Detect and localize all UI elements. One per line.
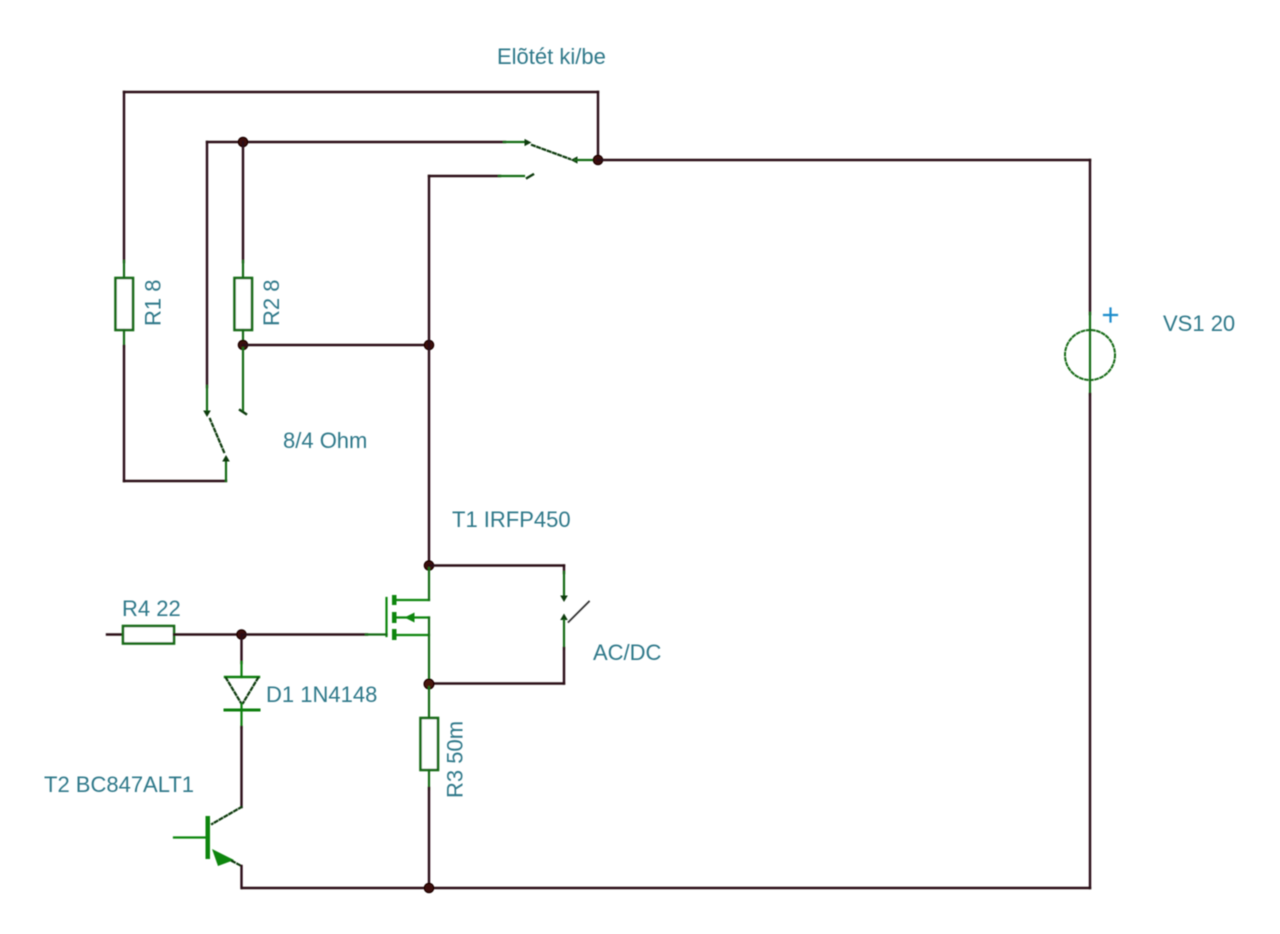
node junction T1 source / R3 top xyxy=(424,679,434,689)
wire vertical x=429 from lower throw to T1 drain junction xyxy=(428,176,430,565)
svg-text:R1 8: R1 8 xyxy=(141,280,166,326)
switch SW1 common green lead xyxy=(575,159,598,161)
wire green drop to SW2 open contact xyxy=(242,348,244,410)
switch SW3 top arrowhead down xyxy=(560,596,568,603)
diode D1 dashed triangle sides xyxy=(226,678,258,703)
T1 drain lead xyxy=(396,599,429,601)
wire R3 bottom lead xyxy=(428,770,430,789)
wire horizontal y=142 xyxy=(207,141,505,143)
wire R1 top lead xyxy=(123,92,125,262)
wire R4 right lead to junction xyxy=(174,633,241,635)
T1 channel bar bottom xyxy=(392,629,397,640)
T2 emitter dashes to corner xyxy=(232,861,242,866)
svg-text:AC/DC: AC/DC xyxy=(593,640,662,665)
resistor R3 xyxy=(421,718,439,770)
node junction at switch common xyxy=(593,155,602,164)
wire R4 left stub xyxy=(107,633,123,635)
wire vertical x=207 from y142 wire to switch contact xyxy=(206,142,208,387)
switch SW1 common arrowhead xyxy=(571,156,578,163)
transistor T1 MOSFET gate bar xyxy=(385,598,387,636)
switch SW3 bottom arrowhead up xyxy=(560,614,568,621)
switch SW2 pivot arrowhead xyxy=(222,455,230,462)
svg-text:R2 8: R2 8 xyxy=(259,280,284,326)
T2 emitter arrow xyxy=(212,849,234,866)
voltage source VS1 plus sign xyxy=(1104,309,1117,322)
resistor R4 xyxy=(123,626,174,644)
switch SW2 8/4 Ohm : pivot stub xyxy=(225,461,227,481)
diode D1 cathode bar xyxy=(225,709,259,712)
switch SW2 contact arrowhead on x=207 line xyxy=(203,411,211,418)
T1 source lead xyxy=(396,634,429,636)
wire top horizontal from R1 top to right corner xyxy=(124,91,598,93)
wire bottom-left horizontal xyxy=(124,480,226,482)
voltage source VS1 dashed circle xyxy=(1065,330,1115,380)
wire R2 top lead xyxy=(242,142,244,262)
T1 body lead with arrow xyxy=(396,616,429,618)
wire right rail upper xyxy=(1089,160,1091,314)
wire R2 bottom lead xyxy=(242,330,244,345)
T2 base bar xyxy=(206,816,211,859)
switch SW1 Elõtét ki/be : upper throw green lead xyxy=(504,141,526,143)
svg-text:8/4 Ohm: 8/4 Ohm xyxy=(283,428,367,453)
wire D1 top lead xyxy=(240,635,242,664)
node junction y=345 x=429 xyxy=(424,340,433,349)
node junction gate/diode xyxy=(237,630,246,639)
transistor T2 collector dashed diagonal xyxy=(212,807,242,824)
wire bottom rail xyxy=(242,887,1090,889)
svg-text:T1 IRFP450: T1 IRFP450 xyxy=(452,507,571,532)
resistor R2 xyxy=(235,278,253,330)
svg-text:D1 1N4148: D1 1N4148 xyxy=(266,682,377,707)
T2 base lead xyxy=(174,836,206,838)
wire horizontal y=345 xyxy=(243,344,429,346)
svg-text:R3 50m: R3 50m xyxy=(443,721,468,798)
svg-text:Elõtét ki/be: Elõtét ki/be xyxy=(497,44,606,69)
node junction bottom rail xyxy=(424,883,433,892)
node junction R2 top xyxy=(238,137,247,146)
diode D1 anode edge xyxy=(225,676,259,678)
wire T1 drain junction to AC/DC switch top xyxy=(429,564,564,566)
node junction T1 drain xyxy=(424,561,433,570)
switch SW2 dashed blade xyxy=(210,419,224,452)
wire AC/DC bottom horizontal xyxy=(429,682,564,684)
wire D1 bottom lead / T2 collector wire xyxy=(240,704,242,728)
svg-text:T2 BC847ALT1: T2 BC847ALT1 xyxy=(44,772,194,797)
switch SW1 lower throw wire xyxy=(429,175,500,177)
resistor R1 xyxy=(116,278,134,330)
wire from switch common to right rail xyxy=(598,159,1090,161)
switch SW1 lower open contact tick xyxy=(527,175,533,179)
switch SW1 dashed blade xyxy=(532,145,570,159)
switch SW3 open blade diagonal xyxy=(569,602,590,623)
voltage source VS1 lead through circle xyxy=(1089,313,1091,395)
wire R1 bottom lead xyxy=(123,330,125,347)
switch SW2 open contact tick xyxy=(240,410,246,414)
node junction R2 bottom xyxy=(238,340,247,349)
switch SW1 upper contact arrowhead xyxy=(525,139,532,146)
T1 channel bar middle xyxy=(392,612,397,623)
T1 body/source vertical down to junction xyxy=(428,618,430,683)
svg-text:VS1 20: VS1 20 xyxy=(1163,311,1235,336)
wire right rail lower xyxy=(1089,394,1091,888)
switch SW3 bottom lead xyxy=(563,620,565,649)
switch SW3 AC/DC : top lead xyxy=(563,566,565,574)
wire R3 top lead xyxy=(428,687,430,718)
T1 channel bar top xyxy=(392,595,397,605)
T2 emitter wire down to bottom rail xyxy=(240,866,242,888)
wire gate wire from junction to T1 gate xyxy=(242,633,368,635)
wire vertical from top corner down to switch common xyxy=(597,92,599,160)
svg-text:R4 22: R4 22 xyxy=(122,596,181,621)
